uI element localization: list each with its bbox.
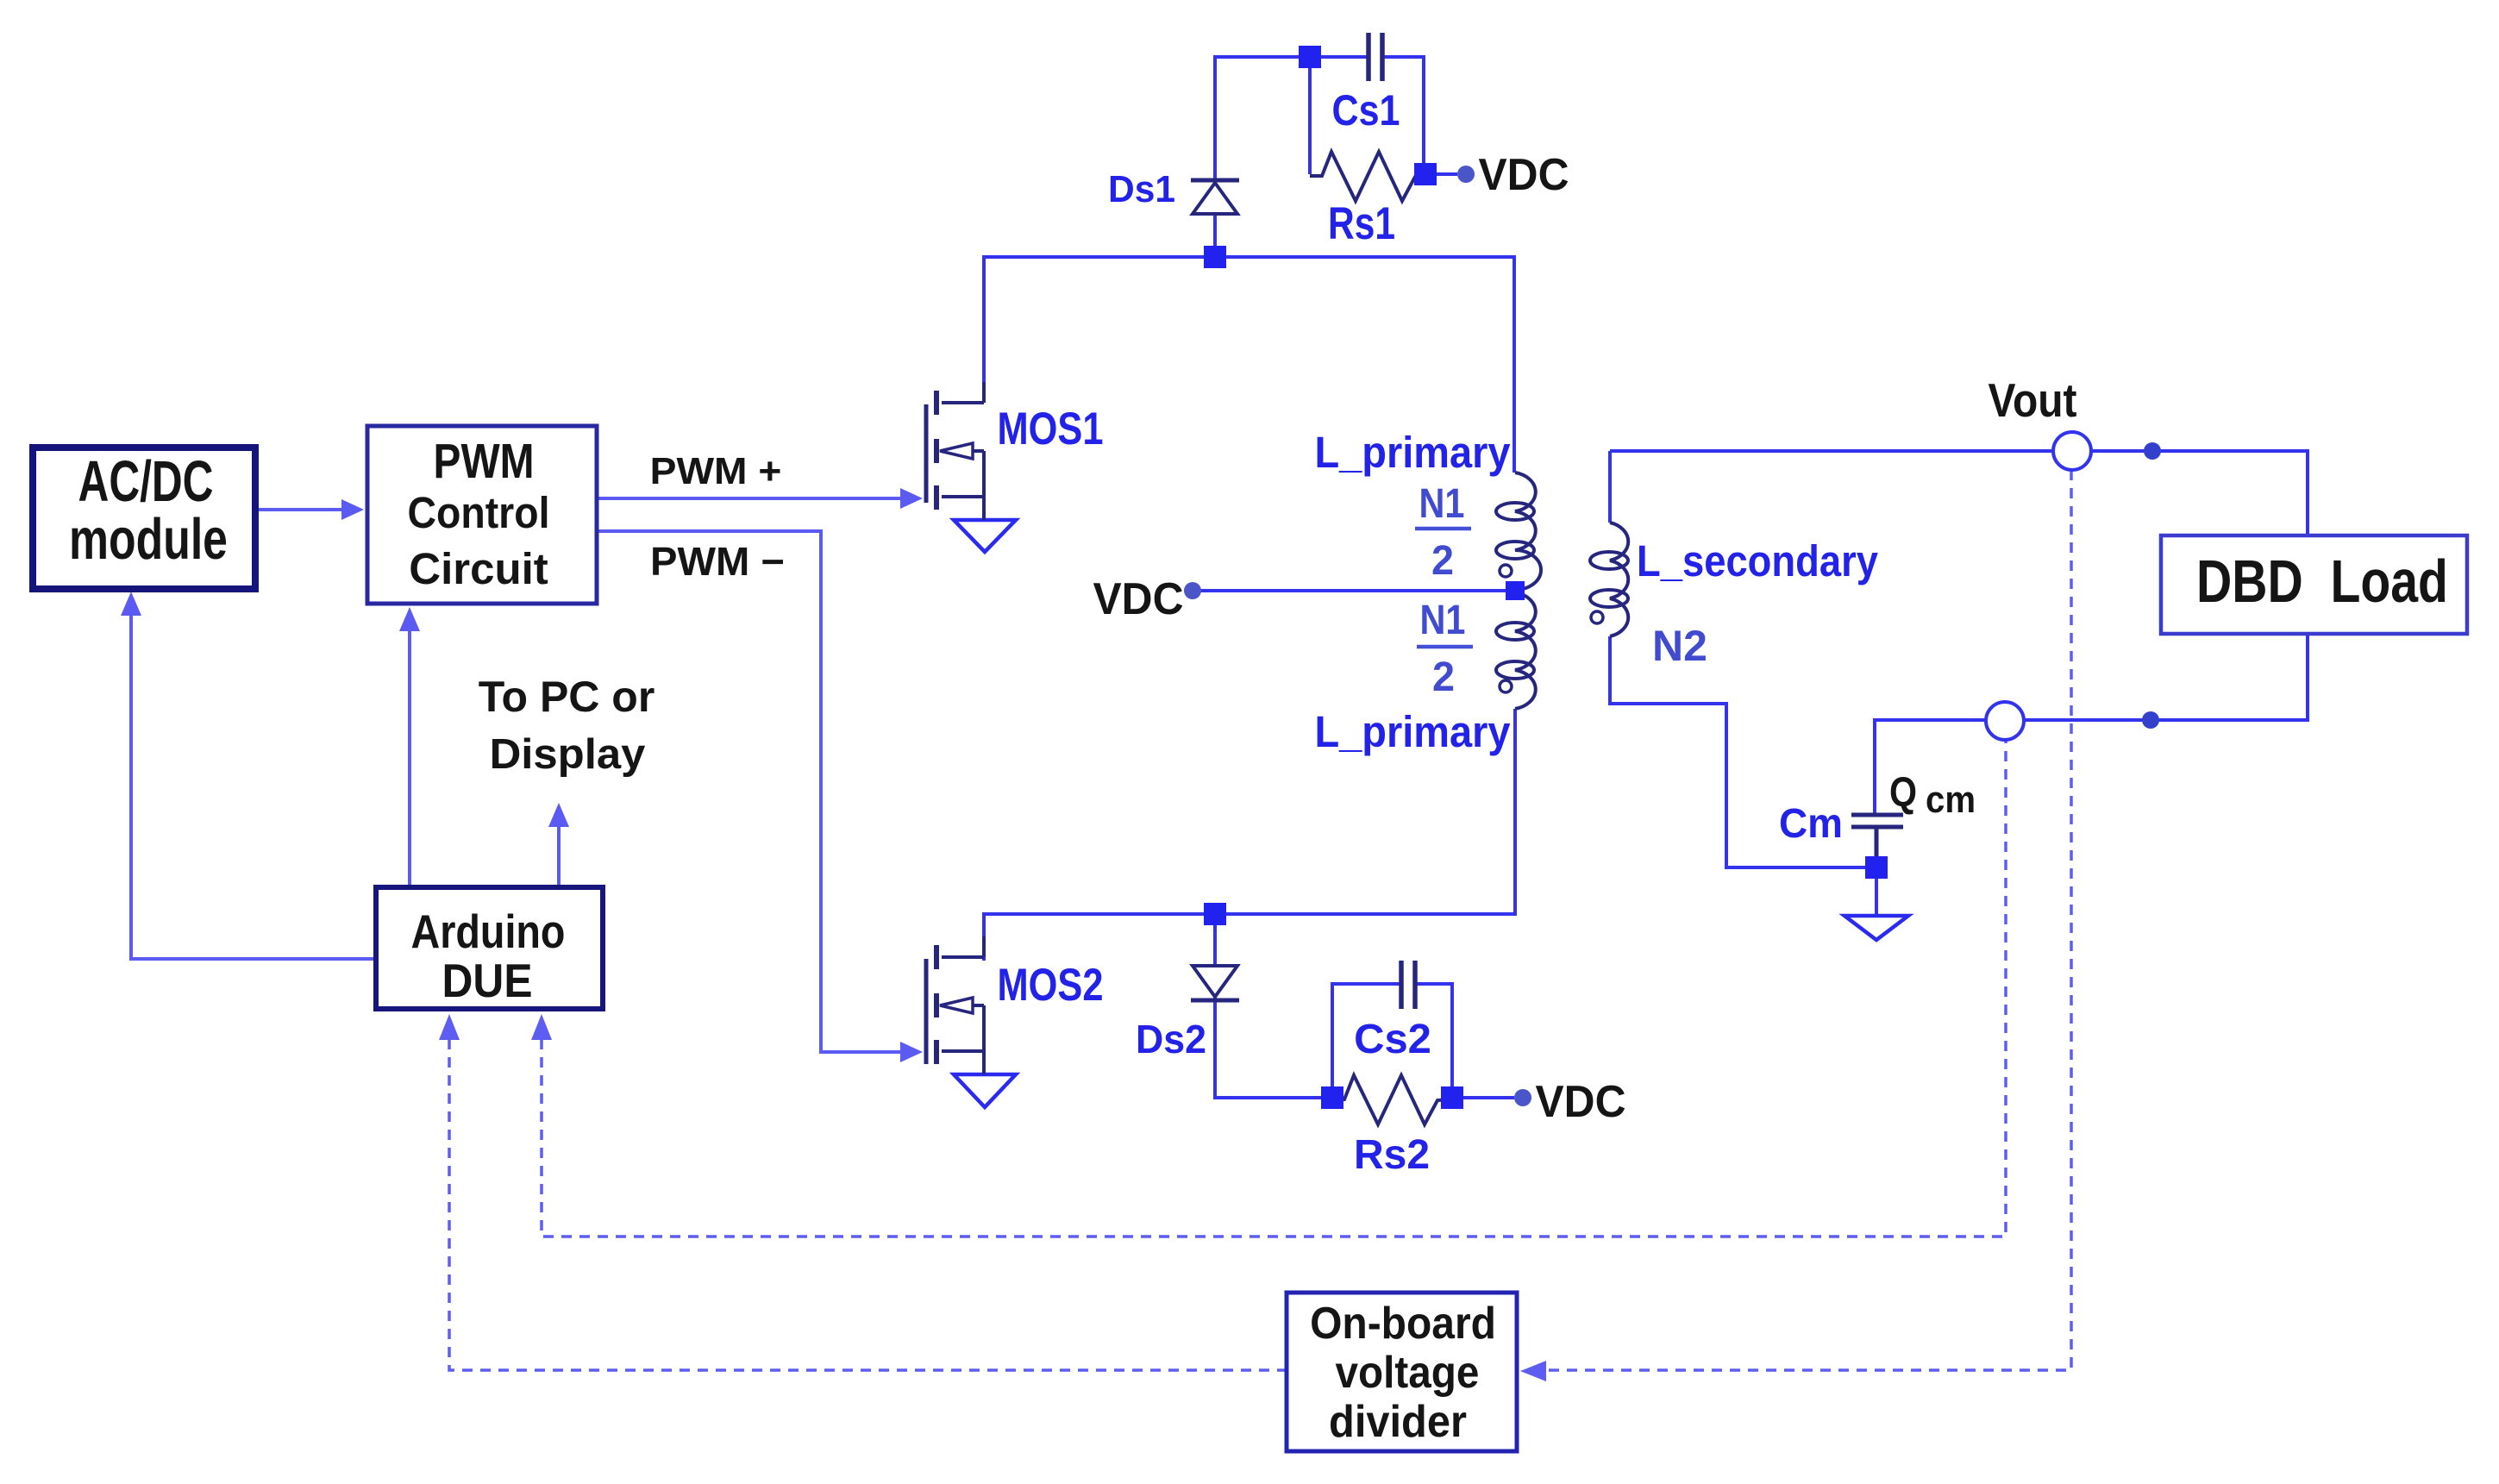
svg-text:On-board: On-board bbox=[1310, 1298, 1496, 1348]
svg-text:DBD Load: DBD Load bbox=[2196, 547, 2448, 615]
svg-text:Rs2: Rs2 bbox=[1354, 1132, 1430, 1178]
svg-text:MOS1: MOS1 bbox=[997, 404, 1103, 454]
svg-text:module: module bbox=[69, 507, 228, 572]
svg-text:MOS2: MOS2 bbox=[997, 960, 1103, 1011]
svg-text:VDC: VDC bbox=[1536, 1076, 1626, 1126]
svg-text:divider: divider bbox=[1329, 1396, 1467, 1447]
svg-text:N1: N1 bbox=[1419, 479, 1465, 527]
svg-text:AC/DC: AC/DC bbox=[78, 450, 214, 514]
svg-text:Ds1: Ds1 bbox=[1108, 168, 1175, 210]
svg-text:L_primary: L_primary bbox=[1314, 708, 1510, 756]
svg-text:PWM: PWM bbox=[434, 434, 535, 489]
svg-text:L_primary: L_primary bbox=[1314, 429, 1510, 477]
svg-text:Arduino: Arduino bbox=[411, 905, 566, 957]
svg-text:VDC: VDC bbox=[1479, 149, 1569, 199]
svg-text:DUE: DUE bbox=[442, 955, 533, 1008]
svg-text:voltage: voltage bbox=[1336, 1347, 1480, 1397]
svg-text:N2: N2 bbox=[1652, 622, 1707, 670]
svg-text:Cs2: Cs2 bbox=[1354, 1016, 1431, 1061]
svg-text:VDC: VDC bbox=[1093, 573, 1184, 623]
svg-text:Ds2: Ds2 bbox=[1136, 1017, 1206, 1061]
svg-text:2: 2 bbox=[1432, 654, 1455, 700]
svg-text:Vout: Vout bbox=[1989, 373, 2077, 427]
svg-text:N1: N1 bbox=[1420, 596, 1466, 643]
svg-text:Cs1: Cs1 bbox=[1332, 86, 1400, 135]
svg-text:PWM +: PWM + bbox=[650, 449, 782, 492]
svg-text:PWM −: PWM − bbox=[650, 540, 785, 584]
svg-text:cm: cm bbox=[1926, 778, 1976, 820]
svg-text:Control: Control bbox=[408, 489, 550, 537]
svg-text:To PC or: To PC or bbox=[479, 673, 655, 721]
svg-text:Q: Q bbox=[1889, 770, 1917, 816]
svg-text:L_secondary: L_secondary bbox=[1637, 537, 1878, 586]
svg-text:Cm: Cm bbox=[1779, 799, 1843, 846]
svg-text:Rs1: Rs1 bbox=[1328, 199, 1395, 249]
svg-text:Display: Display bbox=[490, 730, 646, 778]
svg-text:Circuit: Circuit bbox=[409, 544, 548, 593]
svg-text:2: 2 bbox=[1431, 537, 1454, 584]
